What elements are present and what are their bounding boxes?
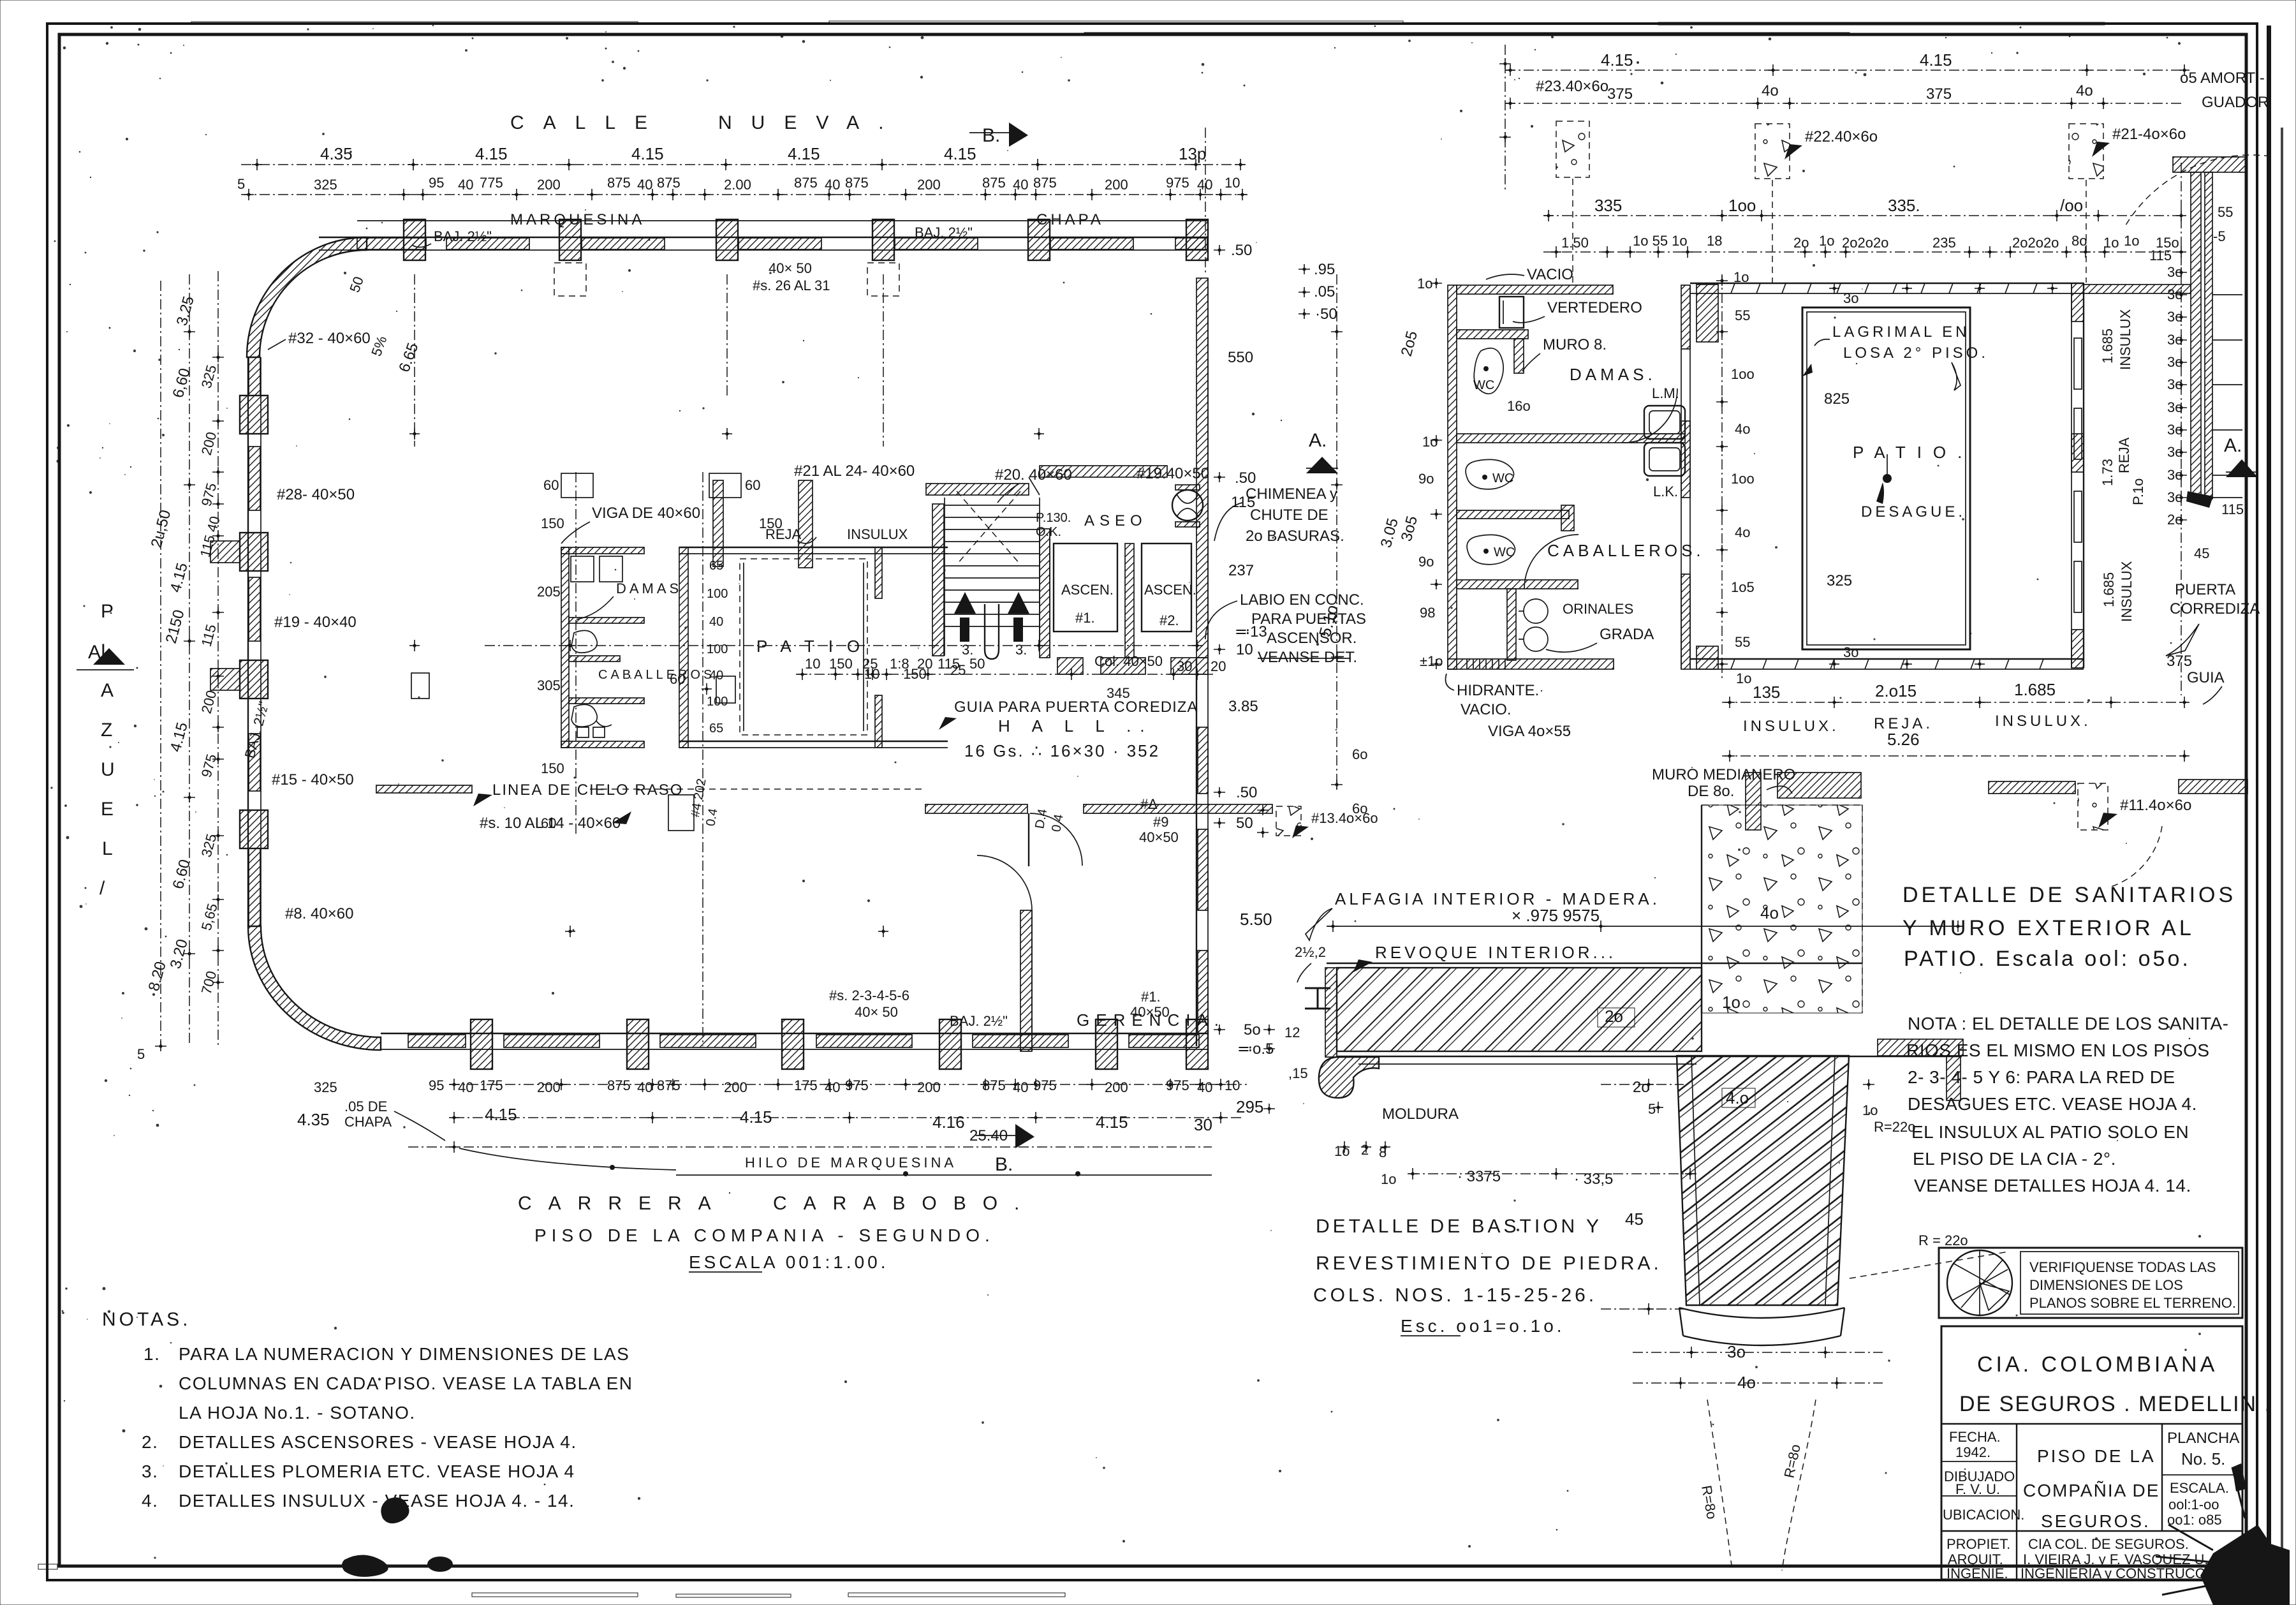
svg-text:975: 975 [1166,175,1189,191]
svg-text:R = 22o: R = 22o [1918,1232,1968,1248]
left wall [1448,285,1457,669]
svg-text:4.15: 4.15 [740,1107,772,1127]
svg-text:875: 875 [845,175,869,191]
svg-text:4.15: 4.15 [1601,50,1633,70]
svg-text:4o: 4o [2076,82,2093,100]
svg-text:3o: 3o [2167,489,2182,505]
svg-text:13p: 13p [1179,144,1206,163]
svg-text:10: 10 [1225,1077,1240,1093]
svg-text:4.15: 4.15 [1096,1113,1128,1132]
svg-text:#22.40×6o: #22.40×6o [1805,128,1878,145]
svg-text:200: 200 [917,177,941,193]
svg-text:55: 55 [2218,204,2233,220]
svg-text:VERTEDERO: VERTEDERO [1547,299,1642,316]
svg-text:40: 40 [637,177,652,193]
svg-text:CARABOBO.: CARABOBO. [773,1193,1036,1214]
lower walls right detail [1989,781,2075,794]
svg-text:F. V. U.: F. V. U. [1955,1481,2000,1497]
grid dash verticals interior [575,472,577,836]
svg-text:HILO DE MARQUESINA: HILO DE MARQUESINA [745,1155,957,1171]
svg-text:1o: 1o [1334,1143,1350,1159]
svg-text:6,60: 6,60 [170,366,194,399]
svg-text:RIOS ES EL MISMO EN LOS: RIOS ES EL MISMO EN LOS PISOS [1906,1040,2210,1060]
wall 3 [1457,434,1685,443]
svg-text:CABALLEROS: CABALLEROS [598,668,715,682]
stair return U [985,604,999,659]
svg-text:2o2o2o: 2o2o2o [1842,235,1888,251]
svg-text:875: 875 [607,1077,631,1093]
svg-text:6o: 6o [1352,801,1367,817]
svg-text:COLUMNAS EN CADA PISO. VEASE: COLUMNAS EN CADA PISO. VEASE LA TABLA EN [179,1373,633,1393]
bottom outside dashed marks [38,1564,1065,1597]
interior small column squares mid-floor [411,673,429,699]
svg-text:5.50: 5.50 [1240,910,1272,929]
thin ledge lines below band [1337,1056,1962,1057]
svg-text:235: 235 [1932,235,1956,251]
svg-text:3o: 3o [2167,332,2182,348]
svg-text:40: 40 [637,1079,652,1095]
bottom sills [1057,658,1083,674]
svg-text:9o: 9o [1418,554,1434,570]
top wall [1690,283,2084,284]
svg-text:98: 98 [1420,605,1435,621]
svg-text:PUERTA: PUERTA [2175,581,2235,598]
svg-text:975: 975 [1166,1077,1189,1093]
bottom wall [1690,658,2084,660]
svg-text:SEGUROS.: SEGUROS. [2041,1511,2151,1531]
svg-text:1o: 1o [1417,276,1432,292]
wall 2 [1457,330,1528,339]
svg-text:40×50: 40×50 [1139,829,1179,845]
svg-text:50: 50 [1236,815,1253,832]
svg-text:200: 200 [198,688,220,715]
svg-text:.50: .50 [1235,470,1256,487]
svg-text:DIMENSIONES DE LOS: DIMENSIONES DE LOS [2029,1277,2183,1293]
border scan noise top [128,21,2105,36]
svg-text:.95: .95 [1314,261,1335,278]
svg-text:9o: 9o [1418,471,1434,487]
svg-text:COMPAÑIA DE: COMPAÑIA DE [2023,1481,2160,1500]
svg-text:65: 65 [709,721,723,736]
svg-text:60: 60 [543,477,559,493]
svg-text:4.15: 4.15 [167,720,191,753]
wc 2 [1466,459,1513,489]
mid dim row [1543,215,2184,216]
svg-text:2o BASURAS.: 2o BASURAS. [1246,528,1344,545]
svg-text:INSULUX.: INSULUX. [1743,718,1839,735]
svg-text:Col. 40×50: Col. 40×50 [1094,653,1163,669]
svg-text:200: 200 [917,1079,941,1095]
svg-text:875: 875 [982,1077,1006,1093]
stippled columns [1556,121,1589,177]
svg-text:D.4: D.4 [1033,808,1050,829]
svg-text:LABIO EN CONC.: LABIO EN CONC. [1240,591,1364,609]
sanitary block [1448,266,1705,669]
cabins [1054,544,1117,632]
svg-text:DETALLES PLOMERIA ETC. VEAS: DETALLES PLOMERIA ETC. VEASE HOJA 4 [179,1461,575,1481]
protruding stubs [210,541,240,563]
svg-text:DAMAS.: DAMAS. [1570,365,1656,384]
svg-text:1o: 1o [1819,233,1834,249]
bottom wall columns [471,1019,1208,1069]
svg-text:GUIA PARA PUERTA COREDIZA: GUIA PARA PUERTA COREDIZA [954,699,1198,716]
left wall [247,357,249,926]
urinals [1507,589,1516,660]
svg-text:5.26: 5.26 [1887,730,1920,749]
svg-text:3o: 3o [2167,467,2182,483]
svg-text:2.: 2. [142,1432,158,1452]
svg-text:200: 200 [1105,1079,1128,1095]
svg-text:95: 95 [429,1077,444,1093]
svg-text:BAJ. 2½": BAJ. 2½" [950,1013,1008,1029]
svg-text:1oo: 1oo [1728,196,1756,215]
verifiquense box [1939,1248,2242,1318]
I-beam left [1305,988,1330,1009]
svg-text:6o: 6o [1352,746,1367,762]
hatched wall segments [357,238,426,249]
svg-text:REJA: REJA [765,526,802,542]
top wall [1457,285,1613,294]
svg-text:H A L L ..: H A L L .. [998,716,1154,736]
svg-text:875: 875 [1033,175,1057,191]
up arrows [954,592,976,614]
svg-text:4.: 4. [142,1491,158,1511]
svg-text:6.65: 6.65 [395,341,422,374]
svg-text:325: 325 [1827,572,1852,589]
svg-text:4.35: 4.35 [297,1110,330,1129]
svg-text:1.685: 1.685 [2101,572,2117,607]
svg-text:4.15: 4.15 [475,144,508,163]
svg-text:4.15: 4.15 [1920,50,1952,70]
svg-text:#8. 40×60: #8. 40×60 [285,905,353,922]
right dim chain 30s [2181,163,2182,695]
svg-text:20: 20 [1211,658,1226,674]
svg-text:.50: .50 [1231,242,1252,259]
svg-text:40: 40 [709,669,723,683]
svg-text:PARA PUERTAS: PARA PUERTAS [1251,610,1366,628]
svg-text:E: E [101,799,114,820]
svg-text:8o: 8o [2072,233,2087,249]
corner arc bottom-left [248,926,381,1050]
svg-text:ASEO: ASEO [1084,512,1147,529]
svg-text:PATIO. Escala ool: o5o.: PATIO. Escala ool: o5o. [1904,947,2191,971]
svg-text:875: 875 [657,1077,681,1093]
svg-text:55: 55 [1735,634,1750,650]
svg-text:3o: 3o [2167,286,2182,302]
svg-text:#1.: #1. [1141,989,1161,1005]
svg-text:200: 200 [537,1079,561,1095]
svg-text:16 Gs. ∴ 16×30 · 352: 16 Gs. ∴ 16×30 · 352 [964,741,1160,760]
svg-text:775: 775 [480,175,503,191]
svg-text:975: 975 [198,752,220,779]
svg-text:55: 55 [1735,307,1750,323]
svg-text:A: A [101,680,114,701]
svg-text:1oo: 1oo [1731,366,1755,382]
svg-text:.05 DE: .05 DE [344,1098,387,1114]
svg-text:3.25: 3.25 [173,294,198,327]
svg-text:335.: 335. [1888,196,1920,215]
ink blot corner bottom-right [2200,1525,2290,1605]
svg-text:375: 375 [1926,85,1952,103]
svg-text:LOSA 2° PISO.: LOSA 2° PISO. [1843,344,1989,362]
svg-text:≕13: ≕13 [1235,623,1267,640]
svg-text:875: 875 [607,175,631,191]
svg-text:NOTA : EL DETALLE DE LOS: NOTA : EL DETALLE DE LOS SANITA- [1908,1014,2229,1033]
bathroom block (main plan) [561,547,644,748]
patio detail [1690,283,2084,670]
main title block [1941,1326,2242,1579]
svg-text:DESAGUES ETC. VEASE HOJA 4: DESAGUES ETC. VEASE HOJA 4. [1908,1094,2197,1114]
svg-text:295: 295 [1236,1097,1263,1116]
svg-text:R=22o: R=22o [1874,1119,1915,1135]
svg-text:Z: Z [101,720,112,741]
svg-text:#1.: #1. [1075,610,1095,626]
svg-text:WC: WC [1473,378,1494,392]
svg-text:825: 825 [1824,390,1850,408]
svg-text:325: 325 [198,832,220,859]
middle wall with door [925,804,1027,813]
dim row under hall [796,674,1215,675]
svg-text:#2.: #2. [1159,612,1179,628]
svg-text:CALLE: CALLE [510,112,666,133]
svg-text:#28- 40×50: #28- 40×50 [277,486,355,503]
svg-text:4.15: 4.15 [788,144,820,163]
svg-text:-5: -5 [2213,228,2226,244]
svg-text:4.15: 4.15 [485,1105,517,1124]
svg-text:875: 875 [794,175,818,191]
svg-text:2o: 2o [1605,1007,1623,1026]
grid dash horizontal through patio [485,645,1205,646]
svg-text:1o 55 1o: 1o 55 1o [1633,233,1688,249]
svg-text:CIA. COLOMBIANA: CIA. COLOMBIANA [1977,1352,2218,1377]
svg-text:10: 10 [805,656,820,672]
svg-text:2.o15: 2.o15 [1875,681,1917,700]
svg-text:50: 50 [969,656,985,672]
svg-text:#11.4o×6o: #11.4o×6o [2120,797,2191,814]
svg-text:40: 40 [825,177,840,193]
interior grid tick crosses [409,428,1202,937]
svg-text:PLANCHA: PLANCHA [2167,1430,2239,1447]
svg-text:VIGA 4o×55: VIGA 4o×55 [1488,723,1571,740]
left vertical dim chains [160,281,161,1046]
svg-text:#23.40×6o: #23.40×6o [1536,78,1608,95]
svg-text:ASCENSOR.: ASCENSOR. [1267,630,1357,647]
svg-text:Esc. oo1=o.1o.: Esc. oo1=o.1o. [1401,1316,1565,1336]
svg-text:375: 375 [1607,85,1633,103]
svg-text:INSULUX: INSULUX [2119,561,2135,622]
svg-text:3o5: 3o5 [1398,514,1421,544]
svg-text:ORINALES: ORINALES [1563,601,1633,617]
svg-text:BAJ. 2½": BAJ. 2½" [242,700,272,760]
svg-text:3.85: 3.85 [1228,698,1258,715]
svg-text:975: 975 [1033,1077,1057,1093]
svg-text:VACIO.: VACIO. [1461,701,1512,718]
svg-text:#15 - 40×50: #15 - 40×50 [272,771,354,788]
svg-text:2o5: 2o5 [1398,329,1421,359]
svg-text:INGENIERIA y CONSTRUCCIONES: INGENIERIA y CONSTRUCCIONES [2020,1565,2249,1581]
svg-text:· 33,5: · 33,5 [1574,1171,1613,1188]
bottom dim row major [454,1117,1244,1118]
marquesina line above top wall [357,220,1207,221]
bottom wall [381,1033,1207,1034]
svg-text:5,65: 5,65 [198,901,221,932]
svg-text:40: 40 [458,177,473,193]
svg-text:CORREDIZA: CORREDIZA [2170,600,2260,618]
svg-text:DETALLE DE SANITARIOS: DETALLE DE SANITARIOS [1902,883,2236,907]
svg-text:4.15: 4.15 [631,144,664,163]
svg-text:3o: 3o [2167,354,2182,370]
inner patio rect [1802,307,1970,649]
svg-text:4.35: 4.35 [320,144,353,163]
svg-text:115: 115 [198,623,219,648]
damas stall [571,556,594,582]
svg-text:40: 40 [1197,1079,1212,1095]
svg-text:A.: A. [1309,430,1327,451]
svg-text:U: U [101,759,115,780]
svg-text:PATIO.: PATIO. [1853,443,1973,462]
svg-text:3.05: 3.05 [1378,516,1402,549]
svg-text:LAGRIMAL EN: LAGRIMAL EN [1832,323,1970,341]
svg-text:305: 305 [537,677,561,693]
svg-text:VIGA DE 40×60: VIGA DE 40×60 [592,505,700,522]
svg-text:GRADA: GRADA [1600,626,1654,643]
corner arc top-left [247,237,367,357]
svg-text:PLANOS SOBRE EL TERRENO.: PLANOS SOBRE EL TERRENO. [2029,1295,2236,1311]
svg-text:200: 200 [1105,177,1128,193]
svg-text:100: 100 [707,587,728,601]
svg-text:ALFAGIA INTERIOR - MADERA.: ALFAGIA INTERIOR - MADERA. [1335,889,1660,908]
svg-text:10: 10 [1225,175,1240,191]
svg-text:NUEVA.: NUEVA. [718,112,902,133]
svg-text:10: 10 [1236,641,1253,658]
svg-text:#20. 40×60: #20. 40×60 [995,466,1072,484]
svg-text:3o: 3o [1843,644,1858,660]
svg-text:18: 18 [1707,233,1722,249]
svg-text:45: 45 [1625,1209,1644,1229]
svg-text:#s. 26 AL 31: #s. 26 AL 31 [753,277,830,293]
svg-text:150: 150 [541,760,564,776]
svg-text:ASCEN.: ASCEN. [1144,582,1196,598]
svg-text:#Δ: #Δ [1140,796,1158,812]
svg-text:L: L [102,838,113,859]
svg-text:Y MURO EXTERIOR AL: Y MURO EXTERIOR AL [1902,916,2195,940]
svg-text:ESCALA 001:1.00.: ESCALA 001:1.00. [689,1252,889,1272]
svg-text:#13.4o×6o: #13.4o×6o [1311,810,1378,826]
svg-text:3o: 3o [2167,399,2182,415]
inner dim chain patio [1721,274,1723,679]
svg-text:2o: 2o [2167,512,2182,528]
svg-text:40: 40 [1197,177,1212,193]
svg-text:DESAGUE.: DESAGUE. [1861,503,1966,521]
svg-text:3.20: 3.20 [167,937,191,970]
elevators [1040,278,1208,1046]
svg-text:2.00: 2.00 [724,177,751,193]
svg-text:100: 100 [707,695,728,709]
svg-text:12: 12 [1284,1024,1300,1040]
concrete stipple block [1702,805,1862,1013]
svg-text:MOLDURA: MOLDURA [1382,1106,1459,1123]
gerencia [1020,910,1032,1051]
svg-text:375: 375 [2167,653,2192,670]
ink blobs bottom-left area [381,1497,409,1523]
svg-text:2o2o2o: 2o2o2o [2012,235,2059,251]
svg-text:WC: WC [1494,545,1515,559]
svg-text:#9: #9 [1153,814,1168,830]
svg-text:95: 95 [429,175,444,191]
svg-text:±1o: ±1o [1420,653,1443,669]
wc 3 [1467,535,1515,565]
svg-text:DAMAS: DAMAS [616,581,682,596]
svg-text:PISO DE LA: PISO DE LA [2037,1446,2156,1466]
svg-text:REVOQUE INTERIOR...: REVOQUE INTERIOR... [1375,943,1616,962]
svg-text:1.50: 1.50 [1561,235,1589,251]
svg-text:FECHA.: FECHA. [1949,1429,2001,1445]
svg-text:2o: 2o [1793,235,1809,251]
svg-text:45: 45 [2194,545,2209,561]
svg-text:2u,50: 2u,50 [148,508,175,550]
svg-text:150: 150 [541,515,564,531]
svg-text:4.o: 4.o [1726,1088,1749,1107]
svg-text:30: 30 [1177,658,1192,674]
svg-text:4o: 4o [1735,421,1750,437]
svg-text:1o: 1o [1422,434,1438,450]
wall under bathrooms + cielo raso labels [376,785,472,793]
svg-text:INSULUX.: INSULUX. [1995,713,2091,730]
svg-text:4.15: 4.15 [167,561,191,594]
right edge double wall [2173,157,2247,172]
wc fixtures [571,630,597,653]
svg-text:2- 3- 4- 5 Y 6: PARA LA RE: 2- 3- 4- 5 Y 6: PARA LA RED DE [1908,1067,2175,1087]
svg-text:WC: WC [1492,471,1513,485]
svg-text:115: 115 [1231,494,1255,511]
svg-text:A.: A. [2224,435,2242,456]
svg-text:325: 325 [314,1079,337,1095]
aseo wall over stairs [926,484,1029,495]
svg-text:1.685: 1.685 [2014,680,2056,699]
svg-text:325: 325 [314,177,337,193]
svg-text:L.M.: L.M. [1652,385,1679,401]
svg-text:#21-4o×6o: #21-4o×6o [2112,126,2186,143]
top dimension chain row 1 (bays) [241,164,1245,165]
svg-text:1.685: 1.685 [2100,329,2116,364]
wall 4 [1457,510,1569,519]
svg-text:115: 115 [2221,501,2244,517]
svg-text:ool:1-oo: ool:1-oo [2168,1497,2219,1513]
dashed R=80 curves [1707,1400,1732,1571]
svg-text:EL PISO DE LA CIA - 2°.: EL PISO DE LA CIA - 2°. [1913,1149,2116,1169]
right wall [2071,283,2072,668]
svg-text:40: 40 [825,1079,840,1095]
svg-text:CHIMENEA y: CHIMENEA y [1246,485,1337,503]
svg-text:NOTAS.: NOTAS. [102,1309,191,1330]
svg-text:VERIFIQUENSE TODAS LAS: VERIFIQUENSE TODAS LAS [2029,1259,2216,1275]
svg-text:4o: 4o [1760,903,1779,922]
svg-text:B.: B. [982,125,1000,146]
svg-text:MURO 8.: MURO 8. [1543,336,1607,353]
svg-text:PARA LA NUMERACION Y DIMEN: PARA LA NUMERACION Y DIMENSIONES DE LAS [179,1344,629,1364]
top dimension chain row 2 (minor) [241,194,1247,195]
urinal marks bottom [577,727,605,737]
svg-text:1.73: 1.73 [2100,459,2116,486]
svg-text:1oo: 1oo [1731,471,1755,487]
top wall band [319,237,1207,238]
svg-text:MURO MEDIANERO: MURO MEDIANERO [1652,766,1795,783]
wc 1 [1474,348,1503,394]
svg-text:40: 40 [458,1079,473,1095]
dashed X over stair top [957,491,1020,565]
svg-text:CARRERA: CARRERA [518,1193,728,1214]
svg-text:40: 40 [709,615,723,629]
